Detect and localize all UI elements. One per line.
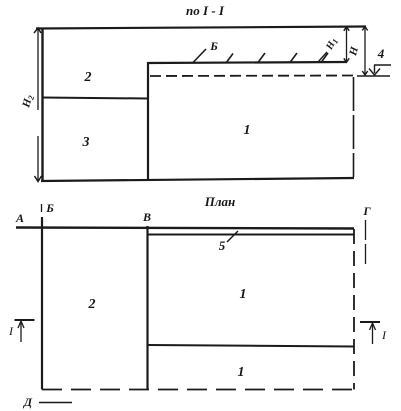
svg-text:1: 1 (238, 365, 245, 380)
svg-text:Г: Г (362, 204, 371, 218)
divider between region 2 and 3 wire (42, 98, 148, 99)
plan vertical В wire (146, 226, 148, 390)
node Г tick (365, 220, 367, 267)
svg-text:А: А (15, 211, 24, 225)
node Б tick (dashed) (41, 204, 43, 216)
section bottom edge wire (41, 178, 354, 181)
section mark I right (360, 322, 380, 344)
section mark I left (15, 320, 35, 342)
dashed ground line (150, 75, 356, 78)
leader to label H1 (318, 52, 327, 62)
plan bottom dashed edge (42, 389, 354, 391)
region 1 top edge wire (148, 62, 346, 63)
hatch tick 4 (321, 53, 328, 63)
line after Д (39, 402, 72, 404)
plan left edge wire (41, 217, 43, 390)
plan right dashed edge (353, 229, 355, 390)
svg-text:План: План (204, 194, 236, 209)
line 5 (double edge) (148, 234, 354, 236)
section left edge wire (41, 28, 43, 182)
section top edge wire (36, 27, 366, 29)
step vertical wire (147, 62, 149, 181)
plan divider wire (148, 345, 354, 347)
hatch tick 3 (290, 53, 297, 63)
svg-text:2: 2 (88, 297, 96, 312)
leader to label Б (193, 49, 206, 63)
arrow of label 4 (369, 65, 380, 75)
dimension line H1 (344, 27, 349, 63)
surface line under arrow 4 (357, 75, 390, 77)
datum line А-Г (16, 228, 354, 229)
svg-text:В: В (142, 210, 151, 224)
dimension line H2 (34, 28, 42, 182)
svg-text:Д: Д (23, 395, 33, 409)
hatch tick 2 (258, 53, 265, 63)
svg-text:4: 4 (377, 46, 385, 61)
svg-text:по I - I: по I - I (186, 3, 225, 18)
leader bar of label 4 (374, 64, 391, 66)
dimension line H (362, 27, 367, 76)
svg-text:1: 1 (240, 287, 247, 302)
svg-text:1: 1 (244, 123, 251, 138)
svg-text:Б: Б (209, 39, 218, 53)
leader to label 5 (227, 231, 238, 242)
svg-text:5: 5 (219, 238, 226, 253)
svg-text:2: 2 (84, 70, 92, 85)
svg-text:3: 3 (82, 135, 90, 150)
section right dashed edge wire (353, 77, 355, 177)
hatch tick 1 (226, 54, 233, 64)
svg-text:Б: Б (45, 201, 54, 215)
